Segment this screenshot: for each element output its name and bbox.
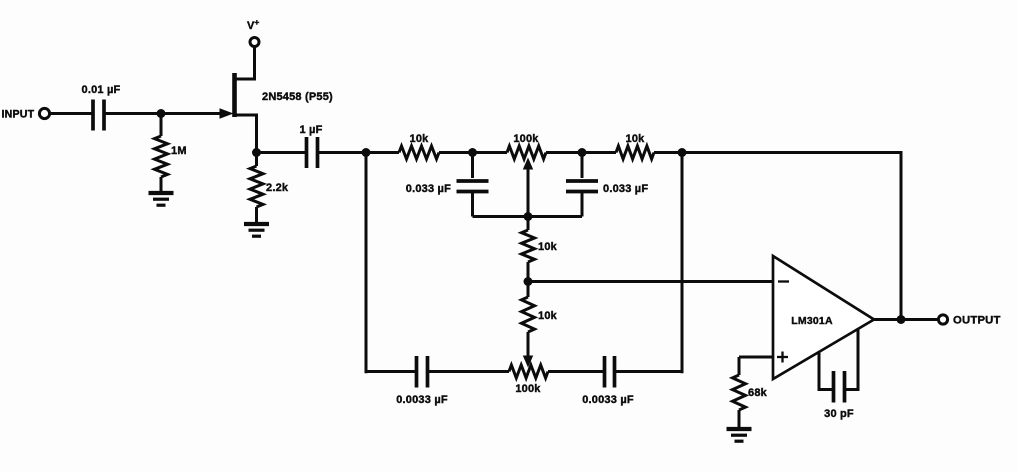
value label 0.033 uF (C4): [603, 183, 648, 195]
wire non-inverting input to R7: [739, 356, 773, 359]
svg-text:10k: 10k: [538, 310, 558, 322]
label LM301A: [791, 315, 833, 327]
value label 100k (P1): [513, 133, 539, 145]
svg-text:100k: 100k: [513, 133, 539, 145]
capacitor C5 0.0033uF: [417, 356, 428, 388]
value label 10k (R5): [538, 241, 558, 253]
potentiometer P2 100k element: [509, 365, 548, 378]
value label 2.2k: [266, 182, 289, 194]
wire R4 to node F: [654, 151, 682, 154]
svg-text:68k: 68k: [748, 387, 768, 399]
svg-text:OUTPUT: OUTPUT: [953, 315, 1001, 327]
wire tee junction row: [473, 215, 583, 218]
wire C6 to right rail: [615, 370, 683, 373]
transistor Q1 2N5458 channel bar: [232, 73, 237, 117]
wire feedback top: [682, 153, 901, 320]
wire node B to C2: [257, 151, 307, 154]
resistor R7 68k: [733, 357, 746, 428]
wire C2 to node C: [318, 151, 367, 154]
wire C1 to node A: [104, 112, 161, 115]
wire bottom row left: [366, 370, 417, 373]
svg-text:0.0033 µF: 0.0033 µF: [582, 394, 634, 406]
value label 30 pF: [824, 408, 854, 420]
transistor Q1 source stub / wire to node B: [235, 115, 257, 153]
node A junction: [157, 109, 166, 118]
ground under R2: [244, 224, 269, 236]
svg-text:LM301A: LM301A: [791, 315, 833, 327]
value label 10k (R6): [538, 310, 558, 322]
value label 10k (R3): [410, 133, 430, 145]
capacitor C7 30pF: [819, 329, 858, 403]
wire input terminal to C1: [50, 112, 94, 115]
transistor Q1 gate arrow: [220, 108, 234, 118]
svg-text:2.2k: 2.2k: [266, 182, 289, 194]
input terminal: [39, 108, 49, 118]
ground under R7: [727, 429, 752, 441]
svg-text:30 pF: 30 pF: [824, 408, 854, 420]
capacitor C2 1uF: [307, 137, 318, 168]
node E junction: [578, 148, 587, 157]
label INPUT: [2, 109, 35, 121]
op-amp non-inverting input marker: [777, 352, 788, 363]
value label 1M: [171, 145, 187, 157]
wire P1 to node E: [546, 151, 582, 154]
value label 100k (P2): [515, 383, 541, 395]
value label 0.01 uF: [82, 84, 121, 96]
wire node E to R4: [582, 151, 616, 154]
svg-text:0.01 µF: 0.01 µF: [82, 84, 121, 96]
resistor R6 10k: [522, 282, 535, 358]
potentiometer P1 100k element: [507, 146, 546, 159]
wire node C to R3: [366, 151, 399, 154]
value label 0.033 uF (C3): [406, 183, 451, 195]
node C junction: [362, 148, 371, 157]
value label 0.0033 uF (C5): [396, 394, 448, 406]
wire op-amp output: [874, 318, 939, 321]
svg-text:INPUT: INPUT: [2, 109, 35, 121]
resistor R1 1M: [155, 114, 168, 193]
V+ terminal: [250, 38, 259, 47]
wire node A to Q1 gate: [161, 112, 228, 115]
svg-text:10k: 10k: [538, 241, 558, 253]
node H junction: [524, 212, 533, 221]
capacitor C4 0.033uF: [566, 153, 598, 217]
resistor R2 2.2k: [250, 153, 263, 224]
svg-text:1M: 1M: [171, 145, 187, 157]
wire P2 to C6: [548, 370, 605, 373]
svg-text:0.0033 µF: 0.0033 µF: [396, 394, 448, 406]
wire left rail node C to bottom row: [365, 153, 368, 374]
node D junction: [468, 148, 477, 157]
op-amp inverting input marker: [778, 280, 789, 282]
capacitor C3 0.033uF: [457, 153, 489, 217]
capacitor C6 0.0033uF: [605, 356, 615, 388]
node F junction: [678, 148, 687, 157]
label OUTPUT: [953, 315, 1001, 327]
capacitor C1: [93, 100, 104, 131]
potentiometer P1 wiper arrow: [523, 158, 533, 217]
resistor R3 10k: [399, 146, 439, 159]
wire right rail node F to bottom row: [681, 153, 684, 374]
value label 0.0033 uF (C6): [582, 394, 634, 406]
wiper arrow into P2: [523, 356, 533, 368]
output terminal: [938, 315, 947, 324]
svg-text:10k: 10k: [410, 133, 430, 145]
wire node I to op-amp inverting input: [528, 280, 773, 283]
node B junction: [252, 148, 261, 157]
label V+: [247, 17, 259, 32]
svg-text:10k: 10k: [626, 133, 646, 145]
value label 10k (R4): [626, 133, 646, 145]
wire R3 to node D: [439, 151, 473, 154]
svg-text:2N5458 (P55): 2N5458 (P55): [262, 91, 333, 103]
wire node D to P1: [473, 151, 508, 154]
svg-text:100k: 100k: [515, 383, 541, 395]
resistor R5 10k: [522, 217, 535, 282]
op-amp U1 LM301A triangle: [773, 256, 874, 379]
wire C5 to P2: [428, 370, 510, 373]
label 2N5458 (P55): [262, 91, 333, 103]
svg-text:1 µF: 1 µF: [299, 124, 322, 136]
node I junction: [524, 277, 533, 286]
resistor R4 10k: [616, 146, 654, 159]
ground under R1: [149, 193, 174, 205]
transistor Q1 drain stub: [235, 47, 255, 79]
value label 1 uF: [299, 124, 322, 136]
node G junction: [897, 315, 906, 324]
svg-text:0.033 µF: 0.033 µF: [406, 183, 451, 195]
svg-text:0.033 µF: 0.033 µF: [603, 183, 648, 195]
value label 68k: [748, 387, 768, 399]
